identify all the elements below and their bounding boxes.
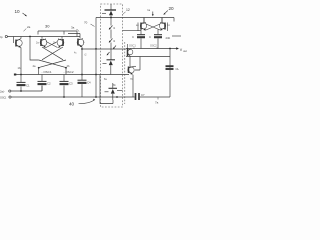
wire x30 down: [30, 37, 39, 61]
wire Q10 emitter to bus: [132, 75, 134, 97]
transistor Q12: [159, 18, 170, 31]
wire upper crossing X: [42, 47, 63, 60]
node center rail junction: [95, 74, 97, 76]
transistor Q1: [14, 37, 23, 48]
transistor Q2: [36, 37, 47, 48]
wire latch drops: [144, 18, 174, 23]
transistor Q7: [103, 52, 116, 75]
node OSC1 tap: [81, 48, 83, 50]
net OSC2 top: [150, 45, 157, 49]
label 30 bracket: [38, 24, 77, 35]
wire net 2a: [11, 86, 42, 92]
terminal 2a: [0, 90, 11, 94]
wire corner to rail: [76, 31, 78, 37]
wire Vout line: [126, 48, 177, 50]
capacitor C1: [17, 82, 31, 91]
wire bias box to latch: [123, 29, 142, 31]
transistor Q3: [53, 37, 64, 48]
capacitor Cb: [149, 35, 162, 49]
wire ground bus: [11, 96, 134, 98]
wire latch cross-couple: [146, 24, 160, 30]
node Q8 bus junction: [116, 96, 118, 98]
svg-text:24b: 24b: [166, 36, 171, 40]
label 10 (figure pointer): [15, 9, 27, 16]
svg-text:70: 70: [84, 21, 88, 25]
terminal OSC: [0, 96, 11, 100]
wire center vertical: [95, 18, 97, 98]
current arrow I3: [113, 46, 116, 50]
svg-text:20: 20: [169, 6, 175, 11]
wire L under Q8: [100, 75, 113, 104]
label 12: [123, 8, 130, 14]
capacitor C7: [136, 93, 171, 100]
dashed sub-box right edge: [124, 42, 126, 104]
svg-text:OSC2: OSC2: [150, 45, 157, 48]
svg-text:3a: 3a: [71, 26, 75, 30]
svg-text:C: C: [149, 35, 151, 39]
wire bias chain lower: [110, 30, 112, 60]
transistor Q10: [128, 57, 140, 82]
node Vout branch: [169, 48, 171, 50]
label 24b: [166, 36, 171, 40]
svg-text:30: 30: [45, 24, 50, 29]
svg-text:C: C: [132, 35, 134, 39]
capacitor C4: [78, 80, 92, 97]
svg-text:12: 12: [126, 8, 130, 12]
Vout arrow: [176, 47, 179, 50]
node C4 top junction: [81, 74, 83, 76]
transistor Q5: [102, 4, 116, 18]
svg-text:10: 10: [15, 9, 21, 14]
wire Q4 emitter down: [81, 47, 83, 80]
svg-text:C1: C1: [26, 84, 30, 88]
wire right stub: [172, 35, 181, 37]
svg-text:out: out: [183, 49, 187, 53]
transistor Q4: [68, 34, 85, 48]
svg-text:2a(-: 2a(-: [0, 90, 5, 94]
label 7a: [155, 98, 159, 105]
wire long node rail: [15, 74, 129, 76]
label 40: [69, 99, 95, 107]
label 3a: [71, 26, 79, 32]
svg-text:- OSC1: - OSC1: [42, 70, 52, 74]
wire latch tails: [141, 30, 158, 35]
label 70: [84, 21, 95, 27]
wire latch outer sides: [138, 23, 168, 32]
svg-text:- OSC2: - OSC2: [64, 70, 74, 74]
svg-text:C7: C7: [141, 93, 145, 97]
current arrow I1: [109, 26, 116, 31]
svg-text:OSC1: OSC1: [129, 45, 136, 48]
node dot at x30: [29, 36, 31, 38]
wire bias chain upper: [110, 18, 112, 26]
wire emitter Q1 down: [20, 48, 22, 83]
svg-text:2a: 2a: [27, 25, 31, 29]
capacitor C2: [38, 75, 52, 92]
svg-text:OSC(: OSC(: [0, 97, 6, 100]
svg-text:C4: C4: [87, 81, 91, 85]
wire lower right line: [126, 56, 170, 58]
svg-text:7a: 7a: [155, 101, 159, 105]
wire OSC1 feed: [82, 48, 126, 50]
capacitor C3: [60, 75, 74, 98]
label 20: [163, 6, 174, 15]
transistor Q11: [136, 18, 147, 31]
wire top rail: [96, 17, 174, 19]
wire lower crossing X: [39, 60, 66, 68]
input terminal Ip: [0, 35, 7, 39]
svg-text:Ip: Ip: [0, 35, 3, 39]
svg-text:C3: C3: [69, 82, 73, 86]
wire input rail: [7, 36, 80, 38]
capacitor Ca: [132, 35, 145, 49]
capacitor CL: [166, 66, 180, 71]
wire vertical to bus: [169, 49, 171, 98]
label 2a pointer: [24, 25, 31, 31]
svg-text:Ia: Ia: [148, 8, 151, 12]
transistor Q8: [105, 83, 123, 100]
net OSC1 top: [129, 45, 136, 49]
dashed bias box: [101, 4, 123, 107]
node 4a: [33, 64, 40, 75]
svg-text:40: 40: [69, 102, 75, 107]
node OSC1 crossing: [95, 48, 97, 50]
transistor Q9: [128, 44, 133, 57]
current arrow I2: [109, 39, 116, 44]
svg-text:C2: C2: [47, 82, 51, 86]
node 4b: [65, 64, 70, 75]
svg-text:CL: CL: [176, 67, 180, 71]
current arrow Ia: [148, 8, 154, 16]
wire cross-couple gates: [46, 42, 58, 48]
